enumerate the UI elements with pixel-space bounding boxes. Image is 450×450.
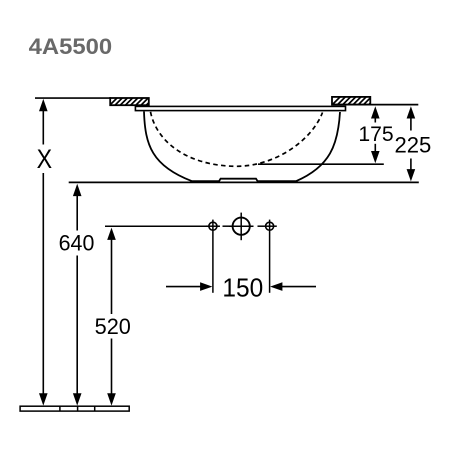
dimension 520 xyxy=(95,228,131,406)
overflow hole (large circle) xyxy=(233,218,250,235)
hole centerline extension (520 -> left hole) xyxy=(105,225,220,227)
svg-text:520: 520 xyxy=(95,314,131,339)
svg-text:4A5500: 4A5500 xyxy=(29,34,113,59)
svg-text:150: 150 xyxy=(222,272,263,302)
svg-text:225: 225 xyxy=(395,133,432,158)
svg-text:640: 640 xyxy=(59,231,95,256)
inner depth extension line (175) xyxy=(258,163,384,165)
dimension 640 xyxy=(59,184,95,406)
basin inner profile (dashed) xyxy=(151,112,323,167)
left hole centerline / extension down xyxy=(212,220,214,293)
dimension 175 xyxy=(358,106,393,163)
dimension X xyxy=(37,99,53,406)
overflow hole crosshair xyxy=(229,225,254,227)
basin rim flange (section) xyxy=(135,106,345,110)
right fixing hole xyxy=(266,222,274,230)
centerline dash right xyxy=(258,225,264,227)
floor symbol xyxy=(20,406,129,411)
lower reference line (bowl bottom) xyxy=(69,181,419,183)
svg-text:175: 175 xyxy=(358,121,393,146)
countertop top line (left) xyxy=(35,97,111,99)
left countertop hatch block xyxy=(108,95,163,108)
right hole centerline / extension down xyxy=(269,220,271,293)
centerline dash xyxy=(223,225,232,227)
countertop underside extension line (right) xyxy=(334,104,418,106)
left fixing hole xyxy=(209,222,217,230)
right countertop hatch block xyxy=(330,95,385,108)
dimension 150 xyxy=(166,272,316,302)
dimension 225 xyxy=(395,106,432,181)
svg-text:X: X xyxy=(37,144,53,174)
basin outer profile xyxy=(144,112,340,182)
